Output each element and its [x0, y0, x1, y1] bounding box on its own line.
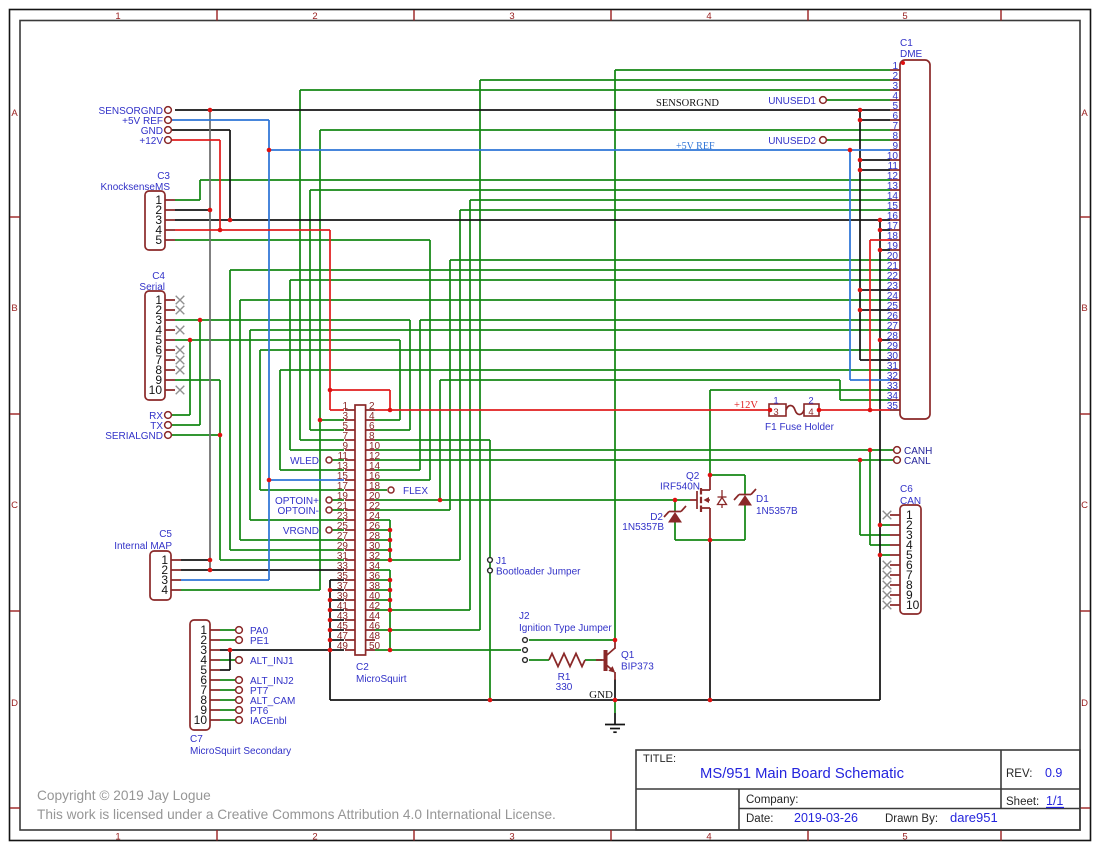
svg-text:TITLE:: TITLE: [643, 753, 676, 765]
wire RX row [172, 414, 190, 416]
junction at 210,560 [208, 558, 213, 563]
svg-text:C7: C7 [190, 734, 203, 745]
svg-text:FLEX: FLEX [403, 486, 428, 497]
svg-text:CANL: CANL [904, 456, 931, 467]
pin C6.9 [890, 594, 900, 596]
wire +12V label drop [219, 140, 221, 230]
pin C2.44 [366, 619, 375, 621]
wire to C2 pin3 [320, 419, 344, 421]
svg-text:GND: GND [589, 689, 613, 701]
pin C2.33 [345, 569, 355, 571]
wire OPTOIN- to C2 pin21 [332, 509, 344, 511]
wire C7 pin3 to C2 pin49 [220, 649, 344, 651]
pin C2.17 [345, 489, 355, 491]
pin C1.21 [890, 269, 900, 271]
svg-text:+5V REF: +5V REF [676, 141, 715, 152]
svg-text:REV:: REV: [1006, 768, 1032, 780]
wire C1 pin21 row [230, 269, 890, 271]
pin C6.7 [890, 574, 900, 576]
wire C7 pin5 [220, 669, 230, 671]
junction at 615,700 [613, 698, 618, 703]
pin C2.30 [366, 549, 375, 551]
pin C1.25 [890, 309, 900, 311]
pin C2.7 [345, 439, 355, 441]
wire riser C1p29-C2p17 [259, 350, 261, 490]
pin C2.40 [366, 599, 375, 601]
no-connect cross C6 [883, 591, 892, 600]
pin C3.1 [165, 199, 175, 201]
junction at 390,590 [388, 588, 393, 593]
wire jog C1 pin34 [839, 380, 841, 400]
wire riser C1p26-C2p14 [419, 320, 421, 470]
pin C1.5 [890, 109, 900, 111]
svg-text:3: 3 [773, 407, 778, 418]
pin C2.37 [345, 589, 355, 591]
svg-text:Sheet:: Sheet: [1006, 796, 1039, 808]
port WLED [326, 457, 332, 463]
wire C3 pin3 GND row to C1 pin16 [175, 219, 890, 221]
svg-text:3: 3 [509, 11, 514, 22]
junction at 269,150 [267, 148, 272, 153]
pin C1.22 [890, 279, 900, 281]
connector C7 MicroSquirt Secondary body [190, 620, 210, 730]
junction at 860,460 [858, 458, 863, 463]
wire CANL to C6 pin3 [860, 534, 890, 536]
wire D2 D1 bottom rail [675, 539, 745, 541]
pin C2.43 [345, 619, 355, 621]
connector C2 MicroSquirt body [355, 405, 366, 655]
wire C2 pin28 [375, 539, 390, 541]
pin C1.31 [890, 369, 900, 371]
pin C5.1 [171, 559, 181, 561]
pin C2.21 [345, 509, 355, 511]
pin C6.1 [890, 514, 900, 516]
title block vertical divider left cell [738, 789, 740, 830]
wire C2 pin8 [375, 439, 490, 441]
port UNUSED1 [820, 97, 827, 104]
wire C2 pin20 to Q2 gate [375, 499, 690, 501]
svg-text:J1: J1 [496, 556, 507, 567]
connector C4 Serial body [145, 291, 165, 400]
svg-text:Ignition Type Jumper: Ignition Type Jumper [519, 623, 612, 634]
pin C2.35 [345, 579, 355, 581]
wire Q2 source to rail [709, 540, 711, 700]
pin C7.1 [210, 629, 220, 631]
svg-text:4: 4 [706, 11, 711, 22]
wire C2 pin40 [375, 599, 390, 601]
wire C7 pin7 PT7 [220, 689, 235, 691]
port UNUSED2 [820, 137, 827, 144]
pin C1.12 [890, 179, 900, 181]
no-connect cross C4 [176, 356, 185, 365]
no-connect cross C6 [883, 511, 892, 520]
wire C2 pin43 [330, 619, 344, 621]
junction at 390,540 [388, 538, 393, 543]
pin C7.10 [210, 719, 220, 721]
wire C1 pin14 row [470, 199, 890, 201]
svg-text:10: 10 [906, 598, 920, 612]
junction at 860,290 [858, 288, 863, 293]
pin C5.3 [171, 579, 181, 581]
svg-text:D: D [1081, 698, 1088, 709]
wire Q1 emitter drop [614, 679, 616, 700]
svg-text:49: 49 [337, 641, 349, 652]
junction at 819,410 [817, 408, 822, 413]
wire C1 pin33 row [710, 389, 890, 391]
connector C5 Internal MAP body [150, 551, 171, 600]
svg-text:C3: C3 [157, 171, 170, 182]
wire C1 pin11 [860, 169, 890, 171]
title block divider under title row [636, 788, 1080, 790]
wire +12V drop to C2 pin1 [329, 390, 331, 410]
wire C1 pin26 row [420, 319, 890, 321]
wire to C2 pin29 [230, 549, 344, 551]
wire C1 pin31 row [280, 369, 890, 371]
wire C7 pin2 PE1 [220, 639, 235, 641]
pin C7.8 [210, 699, 220, 701]
pin C2.4 [366, 419, 375, 421]
svg-text:C1: C1 [900, 38, 913, 49]
wire C2 pin50 to J2 pin2 [375, 649, 521, 651]
wire +12V riser at C1 [869, 240, 871, 410]
wire CANH drop [869, 450, 871, 545]
frame column tick top [610, 10, 612, 21]
no-connect cross C4 [176, 306, 185, 315]
pin C3.2 [165, 209, 175, 211]
wire +12V jog drop [389, 390, 391, 410]
wire riser C1p13-C2p5 [309, 190, 311, 430]
wire C1 pin25 [860, 309, 890, 311]
no-connect cross C6 [883, 571, 892, 580]
wire C2 pin6 [375, 429, 410, 431]
port IACEnbl [236, 717, 243, 724]
svg-text:Serial: Serial [139, 282, 165, 293]
wire GND label drop [229, 130, 231, 220]
wire R1 to Q1 base [585, 659, 602, 661]
junction at 880,340 [878, 338, 883, 343]
pin C1.9 [890, 149, 900, 151]
title block outline [636, 750, 1080, 830]
svg-text:dare951: dare951 [950, 810, 998, 825]
pin C2.28 [366, 539, 375, 541]
wire C3 pin1 stub row [175, 199, 200, 201]
wire D1 top lead [744, 475, 746, 495]
wire OPTOIN+ to C2 pin19 [332, 499, 344, 501]
no-connect cross C6 [883, 581, 892, 590]
wire SENSORGND bus at C1 [859, 110, 861, 360]
pin C2.38 [366, 589, 375, 591]
wire riser C1p21-C2p29 [229, 270, 231, 550]
junction at 880,220 [878, 218, 883, 223]
pin C7.6 [210, 679, 220, 681]
wire +5V REF drop at C1 [849, 150, 851, 380]
pin C2.49 [345, 649, 355, 651]
junction at 320,420 [318, 418, 323, 423]
pin C2.8 [366, 439, 375, 441]
pin C6.10 [890, 604, 900, 606]
wire fuse to C1 pin35 [819, 409, 890, 411]
frame row tick right [1080, 413, 1090, 415]
pin C1.27 [890, 329, 900, 331]
wire C7 pin8 ALT_CAM [220, 699, 235, 701]
wire C2 pin24 [375, 519, 390, 521]
svg-text:C4: C4 [152, 271, 165, 282]
pin C2.47 [345, 639, 355, 641]
junction at 390,580 [388, 578, 393, 583]
pin C2.34 [366, 569, 375, 571]
wire C1p33 riser to Q2 drain [709, 390, 711, 475]
connector C6 CAN body [900, 505, 921, 614]
port ALT_INJ1 [236, 657, 243, 664]
wire C2 pin47 [330, 639, 344, 641]
junction at 390,410 [388, 408, 393, 413]
junction at 440,500 [438, 498, 443, 503]
junction at 390,550 [388, 548, 393, 553]
port ALT_CAM [236, 697, 243, 704]
junction at 770,410 [768, 408, 773, 413]
pin C1.4 [890, 99, 900, 101]
svg-text:2: 2 [312, 832, 317, 843]
port TX [165, 422, 172, 429]
diode D2 1N5357B [669, 511, 681, 513]
wire C1 pin29 row [260, 349, 890, 351]
svg-text:B: B [1081, 303, 1087, 314]
pin C1.23 [890, 289, 900, 291]
no-connect cross C4 [176, 346, 185, 355]
wire C1 pin24 row [240, 299, 890, 301]
pin C1.18 [890, 239, 900, 241]
junction at 880,525 [878, 523, 883, 528]
port GND [165, 127, 172, 134]
wire +12V to C1 pin18 [870, 239, 890, 241]
pin C4.7 [165, 359, 175, 361]
svg-text:KnocksenseMS: KnocksenseMS [101, 182, 171, 193]
svg-text:B: B [11, 303, 17, 314]
title block divider company/date [739, 808, 1080, 810]
junction at 190,340 [188, 338, 193, 343]
junction at 330,600 [328, 598, 333, 603]
wire C4 pin5 RX row [175, 339, 400, 341]
diode D1 1N5357B [739, 494, 751, 496]
wire to C2 pin13 [280, 469, 344, 471]
svg-text:1/1: 1/1 [1046, 794, 1063, 808]
pin C1.7 [890, 129, 900, 131]
junction at 390,600 [388, 598, 393, 603]
pin C2.24 [366, 519, 375, 521]
svg-text:5: 5 [155, 233, 162, 247]
wire C2 pin45 [330, 629, 344, 631]
frame row tick right [1080, 216, 1090, 218]
svg-text:2019-03-26: 2019-03-26 [794, 811, 858, 825]
wire to C2 pin9 [290, 449, 344, 451]
fuse F1 left terminal [769, 404, 786, 416]
wire C1 pin10 [860, 159, 890, 161]
junction at 880,230 [878, 228, 883, 233]
frame row tick right [1080, 807, 1090, 809]
pin C7.5 [210, 669, 220, 671]
pin C4.9 [165, 379, 175, 381]
wire C6 pin5 gnd [880, 554, 890, 556]
junction at 330,590 [328, 588, 333, 593]
pin C1.17 [890, 229, 900, 231]
pin C2.5 [345, 429, 355, 431]
pin J2.2 [523, 648, 528, 653]
pin C2.1 [345, 409, 355, 411]
svg-text:C6: C6 [900, 484, 913, 495]
junction at 210,110 [208, 108, 213, 113]
wire Q2 drain to D1 [710, 474, 745, 476]
port RX [165, 412, 172, 419]
junction at 330,640 [328, 638, 333, 643]
wire C1 pin30 [860, 359, 890, 361]
frame column tick top [1000, 10, 1002, 21]
frame column tick bottom [216, 830, 218, 841]
pin C2.22 [366, 509, 375, 511]
svg-text:IRF540N: IRF540N [660, 482, 700, 493]
port OPTOIN- [326, 507, 332, 513]
junction at 330,650 [328, 648, 333, 653]
junction at 330,630 [328, 628, 333, 633]
junction at 870,410 [868, 408, 873, 413]
pin C4.3 [165, 319, 175, 321]
no-connect cross C4 [176, 386, 185, 395]
no-connect cross C4 [176, 326, 185, 335]
junction at 230,220 [228, 218, 233, 223]
port CANL [894, 457, 901, 464]
pin C4.6 [165, 349, 175, 351]
wire C2 pin36 [375, 579, 390, 581]
pin C2.41 [345, 609, 355, 611]
wire riser C1p15-C2p32 [459, 210, 461, 560]
pin C2.16 [366, 479, 375, 481]
pin C1.19 [890, 249, 900, 251]
pin C6.3 [890, 534, 900, 536]
svg-text:UNUSED2: UNUSED2 [768, 136, 816, 147]
wire C1 pin13 row [310, 189, 890, 191]
wire riser C4p5-C2p4 [399, 340, 401, 420]
wire C1 pin3 row [300, 89, 890, 91]
wire RX riser [189, 340, 191, 415]
wire C2 odd gnd bus [329, 580, 331, 700]
no-connect cross C4 [176, 366, 185, 375]
wire UNUSED1 to C1 pin4 [827, 99, 890, 101]
title block vertical divider rev [1000, 750, 1002, 809]
frame column tick top [413, 10, 415, 21]
wire C1 pin34 row left [440, 379, 840, 381]
pin C6.5 [890, 554, 900, 556]
wire C2 pin35 [330, 579, 344, 581]
svg-text:1: 1 [115, 11, 120, 22]
svg-text:MicroSquirt Secondary: MicroSquirt Secondary [190, 746, 291, 757]
wire +12V vertical [329, 230, 331, 390]
pin C1.34 [890, 399, 900, 401]
pin C5.2 [171, 569, 181, 571]
wire TX riser [199, 320, 201, 425]
junction at 269,480 [267, 478, 272, 483]
svg-text:1: 1 [773, 396, 778, 407]
wire C2 pin30 [375, 549, 390, 551]
pin C2.14 [366, 469, 375, 471]
svg-text:35: 35 [887, 401, 899, 412]
pin C2.27 [345, 539, 355, 541]
pin C2.20 [366, 499, 375, 501]
wire C2 pin34 [375, 569, 390, 571]
wire C2 pin41 [330, 609, 344, 611]
svg-text:MS/951 Main Board Schematic: MS/951 Main Board Schematic [700, 766, 905, 782]
port +5V REF [165, 117, 172, 124]
svg-text:+12V: +12V [139, 136, 163, 147]
svg-text:OPTOIN-: OPTOIN- [278, 506, 319, 517]
wire riser C4p3-C2p6 [409, 320, 411, 430]
frame column tick bottom [1000, 830, 1002, 841]
frame row tick left [10, 216, 20, 218]
svg-text:1: 1 [115, 832, 120, 843]
wire gnd symbol stem [614, 713, 616, 724]
wire C2 pin37 [330, 589, 344, 591]
wire C2 pin32 [375, 559, 460, 561]
pin C2.19 [345, 499, 355, 501]
wire C7 pin3-pin5 link [229, 650, 231, 670]
pin C2.39 [345, 599, 355, 601]
wire C2 pin39 [330, 599, 344, 601]
wire C1 pin1 row [615, 69, 890, 71]
pin C1.28 [890, 339, 900, 341]
pin C2.31 [345, 559, 355, 561]
wire riser C1p2-C2p46 [479, 80, 481, 630]
wire D2 top lead [674, 500, 676, 512]
pin C1.14 [890, 199, 900, 201]
wire C2 pin38 [375, 589, 390, 591]
wire C4 pin9 row [175, 379, 220, 381]
junction at 330,610 [328, 608, 333, 613]
svg-text:C: C [1081, 500, 1088, 511]
wire to C2 pin7 [300, 439, 344, 441]
svg-text:1N5357B: 1N5357B [622, 522, 664, 533]
wire C1 pin22 row [290, 279, 890, 281]
port +12V [165, 137, 172, 144]
pin C4.5 [165, 339, 175, 341]
svg-text:4: 4 [808, 407, 813, 418]
svg-text:1N5357B: 1N5357B [756, 506, 798, 517]
port PT7 [236, 687, 243, 694]
svg-text:330: 330 [556, 682, 573, 693]
wire C3 pin2 [175, 209, 210, 211]
pin C2.25 [345, 529, 355, 531]
frame column tick bottom [610, 830, 612, 841]
wire +5V REF to C2 pin15 [269, 479, 344, 481]
pin C2.50 [366, 649, 375, 651]
svg-text:4: 4 [161, 583, 168, 597]
connector C1 DME body [900, 60, 930, 419]
wire C7 pin4 ALT_INJ1 [220, 659, 235, 661]
wire riser C1p31-C2p13 [279, 370, 281, 470]
junction at 880,555 [878, 553, 883, 558]
wire C1 pin6 [860, 119, 890, 121]
wire C7 pin10 IACEnbl [220, 719, 235, 721]
svg-text:10: 10 [194, 713, 208, 727]
junction at 860,120 [858, 118, 863, 123]
pin C2.46 [366, 629, 375, 631]
svg-text:UNUSED1: UNUSED1 [768, 96, 816, 107]
wire GND label row [172, 129, 230, 131]
wire +5V REF to C1 pin32 [850, 379, 890, 381]
svg-text:This work is licensed under a: This work is licensed under a Creative C… [37, 807, 556, 822]
junction at 860,160 [858, 158, 863, 163]
pin C1.13 [890, 189, 900, 191]
wire C3 pin5 row [175, 239, 430, 241]
svg-text:Company:: Company: [746, 794, 798, 806]
svg-text:C: C [11, 500, 18, 511]
